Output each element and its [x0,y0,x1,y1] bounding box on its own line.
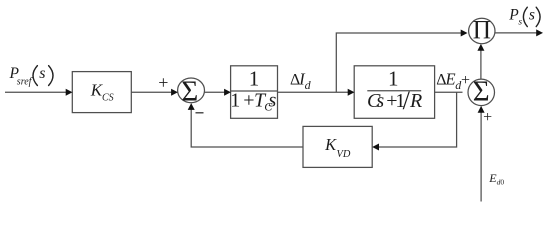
svg-text:Σ: Σ [181,76,198,108]
svg-text:Σ: Σ [473,76,490,108]
svg-text:d: d [305,78,312,92]
svg-text:Π: Π [473,15,491,44]
svg-text:1: 1 [230,89,240,111]
svg-text:VD: VD [337,149,351,160]
svg-text:s: s [39,65,45,82]
svg-text:0: 0 [500,178,504,187]
svg-text:sref: sref [17,77,33,88]
svg-text:+: + [483,109,492,126]
svg-text:1: 1 [388,66,399,90]
svg-text:s: s [529,7,535,24]
svg-text:CS: CS [102,92,114,103]
svg-text:R: R [409,90,422,112]
svg-text:+: + [243,89,254,111]
svg-text:E: E [445,69,456,88]
svg-text:s: s [269,89,277,111]
svg-text:K: K [324,135,337,154]
svg-text:+: + [461,72,470,89]
svg-text:s: s [376,90,384,112]
svg-text:+: + [158,73,168,93]
svg-text:s: s [518,18,522,28]
svg-text:1: 1 [249,66,260,90]
